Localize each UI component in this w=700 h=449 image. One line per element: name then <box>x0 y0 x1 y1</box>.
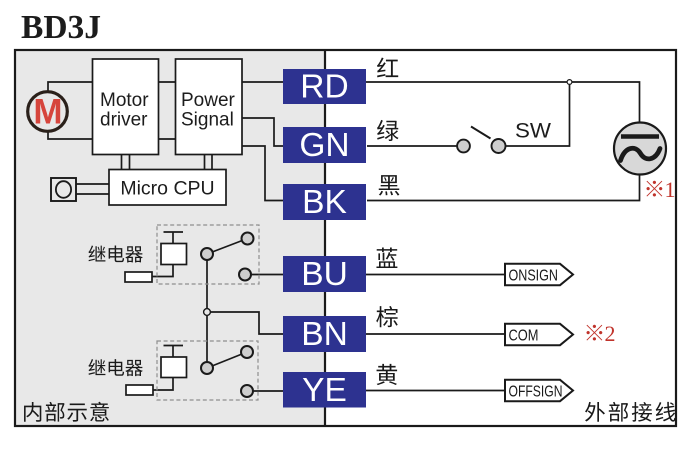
svg-text:BU: BU <box>301 256 348 293</box>
svg-text:GN: GN <box>299 127 349 164</box>
svg-text:Micro CPU: Micro CPU <box>120 178 214 200</box>
svg-text:SW: SW <box>515 120 551 143</box>
svg-text:RD: RD <box>300 69 348 106</box>
svg-text:Motordriver: Motordriver <box>100 90 149 130</box>
svg-text:BN: BN <box>301 316 348 353</box>
svg-text:2: 2 <box>605 321 616 346</box>
svg-text:BK: BK <box>302 184 347 221</box>
svg-text:M: M <box>33 93 62 132</box>
svg-text:BD3J: BD3J <box>21 9 101 46</box>
svg-text:OFFSIGN: OFFSIGN <box>509 383 563 400</box>
svg-text:ONSIGN: ONSIGN <box>509 267 559 284</box>
svg-text:COM: COM <box>509 327 539 344</box>
svg-text:YE: YE <box>302 372 347 409</box>
svg-text:PowerSignal: PowerSignal <box>181 90 236 130</box>
svg-text:1: 1 <box>665 177 676 202</box>
